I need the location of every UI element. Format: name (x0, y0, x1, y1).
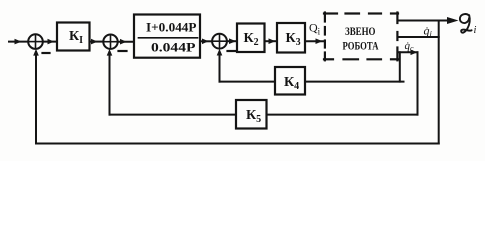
svg-text:i: i (474, 25, 477, 36)
output label Q_i (script) (460, 14, 472, 33)
bottom feedback wire (36, 143, 439, 145)
left vertical wire with arrow into S1 (33, 49, 39, 144)
wire K2 to K3 (265, 38, 278, 44)
summing junction S1 (28, 34, 43, 49)
output wire q_i (398, 17, 459, 24)
wire integrator to S3 (200, 39, 212, 45)
K4 feedback wire left (220, 81, 276, 83)
block K4 (275, 67, 305, 95)
summing junction S3 (212, 34, 227, 49)
block K3 (277, 23, 305, 53)
wire S3 to K2 (227, 38, 237, 44)
block K5 (236, 100, 267, 129)
summing junction S2 (103, 35, 117, 49)
wire K3 to robot link block (305, 38, 324, 44)
takeoff vertical wire (position feedback) (438, 21, 440, 144)
vertical wire with arrow into S2 (107, 49, 113, 115)
wire K1 to S2 (90, 39, 104, 45)
svg-text:ЗВЕНО: ЗВЕНО (345, 26, 376, 38)
third output wire (398, 50, 418, 56)
block K1 (57, 23, 90, 51)
K5 feedback wire right (267, 114, 418, 116)
K4 feedback wire right (305, 81, 404, 83)
input wire (9, 39, 28, 45)
velocity output wire (398, 36, 439, 38)
vertical wire to K4 row (399, 52, 401, 81)
wire S2 to integrator block (118, 39, 134, 45)
svg-text:РОБОТА: РОБОТА (343, 40, 380, 52)
vertical wire with arrow into S3 (217, 49, 223, 82)
block (I+0.044P)/0.044P (134, 15, 200, 58)
robot link block ЗВЕНО РОБОТА (dashed) (324, 13, 398, 61)
K5 feedback wire left (110, 114, 237, 116)
svg-text:0.044P: 0.044P (151, 40, 196, 55)
minus sign at S3 (228, 50, 236, 52)
minus sign at S2 (119, 50, 127, 52)
block K2 (237, 24, 265, 53)
vertical wire to K5 row (417, 52, 419, 114)
wire S1 to K1 (43, 39, 57, 45)
minus sign at S1 (43, 52, 50, 54)
svg-text:I+0.044P: I+0.044P (146, 19, 197, 34)
